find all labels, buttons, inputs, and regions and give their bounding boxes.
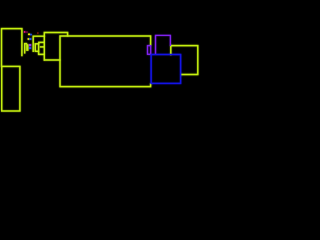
glow underlay [2,29,198,111]
crisp layer [2,29,198,111]
